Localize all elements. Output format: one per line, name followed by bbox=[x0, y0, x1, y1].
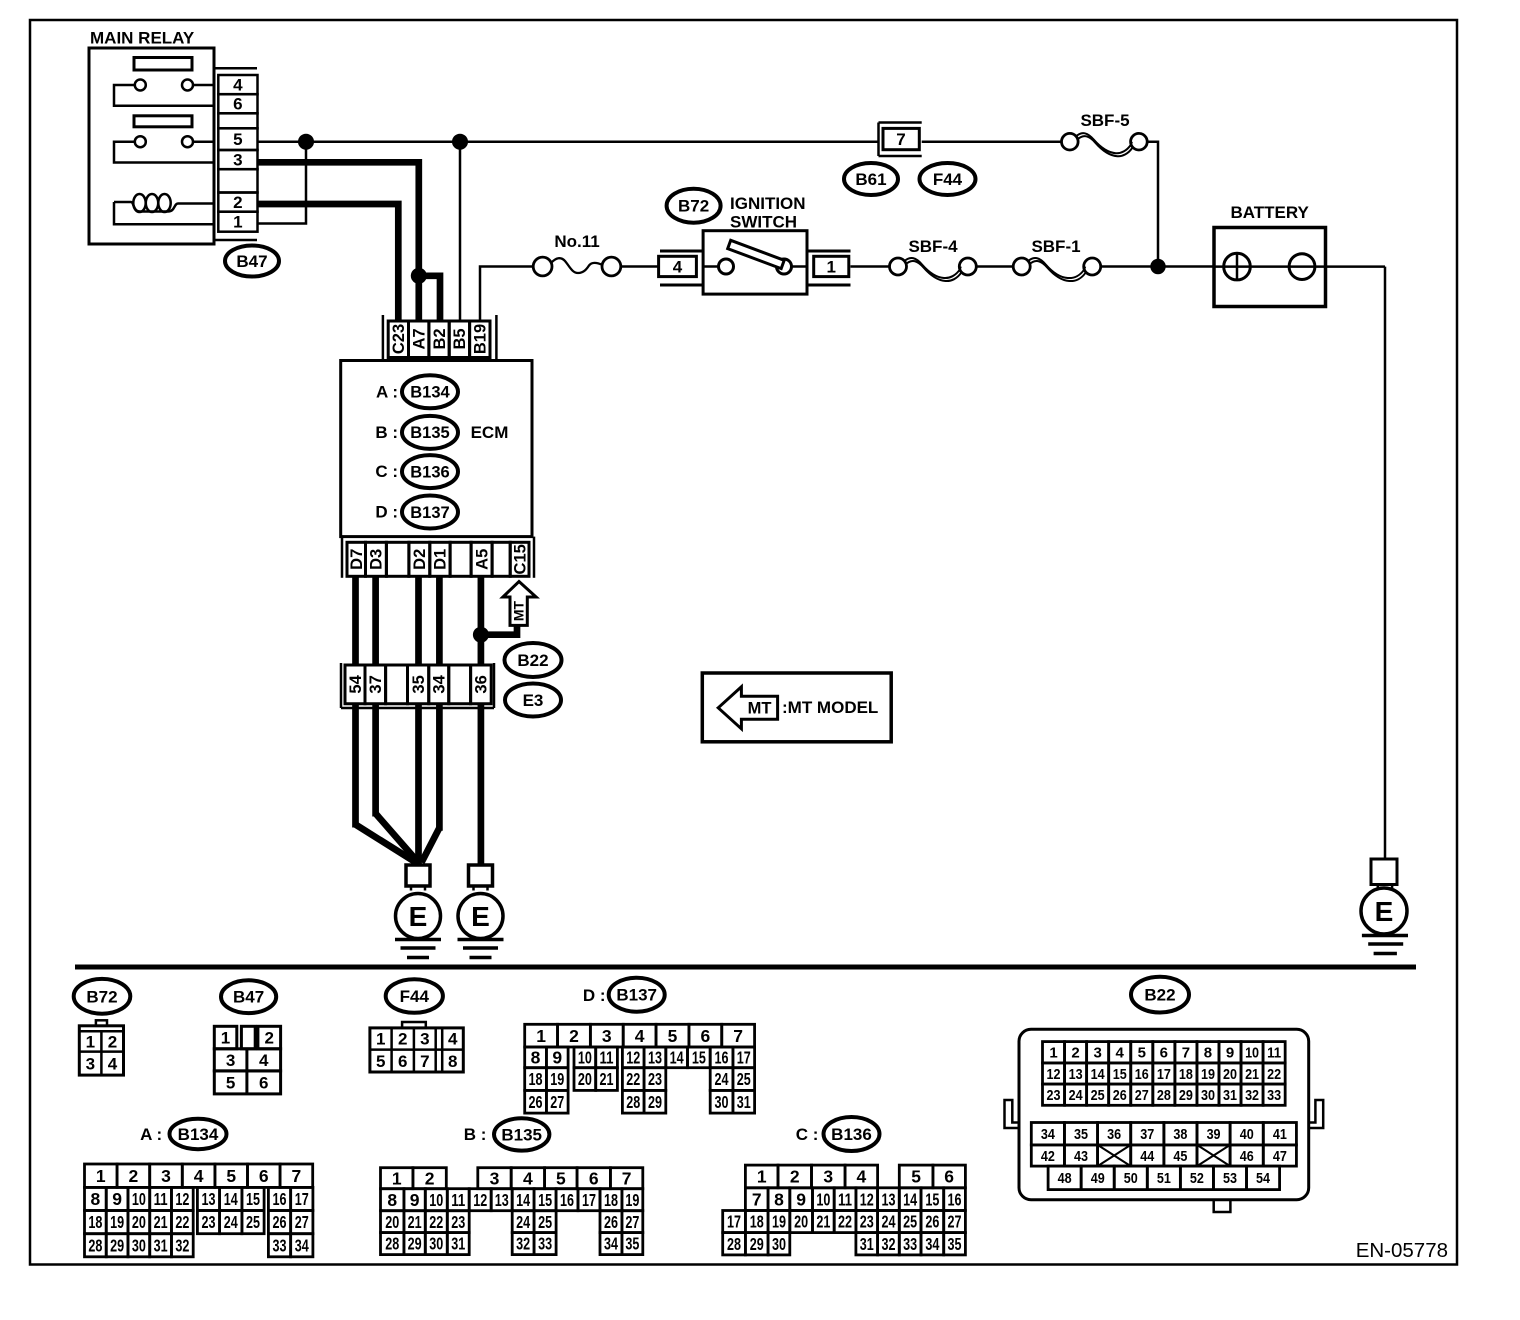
svg-text:3: 3 bbox=[490, 1168, 500, 1188]
svg-text:39: 39 bbox=[1207, 1126, 1221, 1143]
svg-text:27: 27 bbox=[625, 1212, 639, 1232]
svg-text:1: 1 bbox=[757, 1167, 767, 1187]
svg-text:D2: D2 bbox=[411, 549, 429, 570]
svg-text:17: 17 bbox=[737, 1047, 751, 1067]
svg-text:6: 6 bbox=[398, 1052, 407, 1071]
svg-text:34: 34 bbox=[925, 1234, 939, 1254]
svg-text:38: 38 bbox=[1173, 1126, 1187, 1143]
svg-text:49: 49 bbox=[1091, 1170, 1105, 1187]
svg-text:44: 44 bbox=[1140, 1148, 1155, 1165]
svg-text:4: 4 bbox=[194, 1166, 204, 1186]
svg-text:A7: A7 bbox=[410, 328, 428, 349]
svg-text:14: 14 bbox=[516, 1190, 530, 1210]
svg-text:6: 6 bbox=[259, 1166, 269, 1186]
svg-text:34: 34 bbox=[1041, 1126, 1056, 1143]
svg-text:15: 15 bbox=[246, 1189, 260, 1209]
svg-text:9: 9 bbox=[112, 1189, 122, 1209]
svg-text:8: 8 bbox=[448, 1052, 457, 1071]
svg-text:8: 8 bbox=[387, 1190, 397, 1210]
svg-text:5: 5 bbox=[376, 1052, 385, 1071]
svg-text:13: 13 bbox=[648, 1047, 662, 1067]
svg-text:23: 23 bbox=[860, 1212, 874, 1232]
svg-text:20: 20 bbox=[794, 1212, 808, 1232]
svg-text:30: 30 bbox=[429, 1234, 443, 1254]
svg-text:F44: F44 bbox=[933, 170, 963, 189]
svg-text:7: 7 bbox=[733, 1026, 743, 1046]
svg-text:34: 34 bbox=[604, 1234, 618, 1254]
svg-text:B72: B72 bbox=[678, 197, 709, 216]
svg-text:17: 17 bbox=[1157, 1066, 1171, 1083]
svg-text:18: 18 bbox=[529, 1069, 543, 1089]
svg-text:B5: B5 bbox=[451, 328, 469, 349]
svg-text:B136: B136 bbox=[831, 1125, 872, 1144]
svg-text:B :: B : bbox=[375, 423, 398, 442]
svg-text:15: 15 bbox=[1113, 1066, 1127, 1083]
svg-text:32: 32 bbox=[175, 1235, 189, 1255]
svg-text:4: 4 bbox=[523, 1168, 533, 1188]
svg-text:8: 8 bbox=[774, 1189, 784, 1209]
svg-text:C :: C : bbox=[796, 1125, 819, 1144]
svg-text:14: 14 bbox=[903, 1189, 917, 1209]
svg-text:29: 29 bbox=[408, 1234, 422, 1254]
svg-text:12: 12 bbox=[473, 1190, 487, 1210]
svg-text:E3: E3 bbox=[523, 691, 544, 710]
svg-text:6: 6 bbox=[233, 95, 242, 114]
svg-text:30: 30 bbox=[772, 1234, 786, 1254]
svg-text:17: 17 bbox=[727, 1212, 741, 1232]
svg-text:D :: D : bbox=[375, 503, 398, 522]
svg-text:16: 16 bbox=[1135, 1066, 1149, 1083]
svg-text:B135: B135 bbox=[410, 424, 449, 442]
svg-text:29: 29 bbox=[110, 1235, 124, 1255]
svg-text:13: 13 bbox=[202, 1189, 216, 1209]
svg-text:1: 1 bbox=[1049, 1045, 1057, 1062]
svg-text:43: 43 bbox=[1074, 1148, 1088, 1165]
svg-text:31: 31 bbox=[737, 1092, 751, 1112]
svg-text:9: 9 bbox=[796, 1189, 806, 1209]
svg-text:5: 5 bbox=[556, 1168, 566, 1188]
svg-text:16: 16 bbox=[273, 1189, 287, 1209]
svg-text:5: 5 bbox=[911, 1167, 921, 1187]
svg-text:2: 2 bbox=[398, 1030, 407, 1049]
svg-text:18: 18 bbox=[88, 1212, 102, 1232]
svg-text:52: 52 bbox=[1190, 1170, 1204, 1187]
svg-text:51: 51 bbox=[1157, 1170, 1171, 1187]
svg-text:10: 10 bbox=[1245, 1045, 1259, 1062]
svg-text:20: 20 bbox=[1223, 1066, 1237, 1083]
svg-text:2: 2 bbox=[129, 1166, 139, 1186]
svg-text:23: 23 bbox=[1047, 1087, 1061, 1104]
svg-text:5: 5 bbox=[1138, 1045, 1146, 1062]
svg-text:33: 33 bbox=[273, 1235, 287, 1255]
svg-text:MAIN RELAY: MAIN RELAY bbox=[90, 29, 195, 48]
svg-text:35: 35 bbox=[948, 1234, 962, 1254]
svg-text:6: 6 bbox=[589, 1168, 599, 1188]
svg-text:27: 27 bbox=[550, 1092, 564, 1112]
svg-text:9: 9 bbox=[1226, 1045, 1234, 1062]
svg-text:SWITCH: SWITCH bbox=[730, 213, 797, 232]
svg-text:20: 20 bbox=[385, 1212, 399, 1232]
svg-text:37: 37 bbox=[1140, 1126, 1154, 1143]
svg-text:18: 18 bbox=[750, 1212, 764, 1232]
svg-text:22: 22 bbox=[429, 1212, 443, 1232]
svg-text:IGNITION: IGNITION bbox=[730, 194, 806, 213]
svg-text:2: 2 bbox=[790, 1167, 800, 1187]
svg-text:3: 3 bbox=[86, 1054, 95, 1073]
svg-text:10: 10 bbox=[578, 1047, 592, 1067]
svg-text:35: 35 bbox=[625, 1234, 639, 1254]
svg-text:28: 28 bbox=[88, 1235, 102, 1255]
svg-text::MT MODEL: :MT MODEL bbox=[782, 698, 878, 717]
svg-text:15: 15 bbox=[692, 1047, 706, 1067]
svg-text:23: 23 bbox=[202, 1212, 216, 1232]
svg-text:30: 30 bbox=[1201, 1087, 1215, 1104]
svg-text:13: 13 bbox=[495, 1190, 509, 1210]
svg-text:17: 17 bbox=[582, 1190, 596, 1210]
svg-text:31: 31 bbox=[1223, 1087, 1237, 1104]
svg-text:40: 40 bbox=[1240, 1126, 1254, 1143]
svg-text:20: 20 bbox=[132, 1212, 146, 1232]
svg-text:14: 14 bbox=[224, 1189, 238, 1209]
svg-text:B137: B137 bbox=[410, 504, 449, 522]
svg-text:24: 24 bbox=[881, 1212, 895, 1232]
svg-text:E: E bbox=[409, 901, 428, 932]
svg-text:7: 7 bbox=[896, 130, 905, 149]
svg-text:23: 23 bbox=[451, 1212, 465, 1232]
svg-text:10: 10 bbox=[429, 1190, 443, 1210]
svg-text:B22: B22 bbox=[517, 651, 548, 670]
svg-text:6: 6 bbox=[259, 1073, 268, 1092]
svg-text:8: 8 bbox=[91, 1189, 101, 1209]
svg-text:1: 1 bbox=[376, 1030, 385, 1049]
svg-text:14: 14 bbox=[670, 1047, 684, 1067]
svg-text:26: 26 bbox=[529, 1092, 543, 1112]
svg-text:3: 3 bbox=[1093, 1045, 1101, 1062]
svg-text:48: 48 bbox=[1058, 1170, 1072, 1187]
svg-text:25: 25 bbox=[1091, 1087, 1105, 1104]
svg-text:29: 29 bbox=[1179, 1087, 1193, 1104]
svg-text:32: 32 bbox=[1245, 1087, 1259, 1104]
svg-text:B19: B19 bbox=[472, 324, 490, 354]
svg-text:C15: C15 bbox=[511, 544, 529, 574]
svg-text:A :: A : bbox=[376, 382, 398, 401]
svg-text:3: 3 bbox=[823, 1167, 833, 1187]
svg-text:12: 12 bbox=[175, 1189, 189, 1209]
svg-text:24: 24 bbox=[1069, 1087, 1084, 1104]
svg-text:19: 19 bbox=[1201, 1066, 1215, 1083]
svg-text:25: 25 bbox=[538, 1212, 552, 1232]
svg-text:B47: B47 bbox=[236, 252, 267, 271]
svg-text:46: 46 bbox=[1240, 1148, 1254, 1165]
svg-text:50: 50 bbox=[1124, 1170, 1138, 1187]
svg-text:11: 11 bbox=[838, 1189, 852, 1209]
svg-text:18: 18 bbox=[604, 1190, 618, 1210]
svg-text:C :: C : bbox=[375, 462, 398, 481]
svg-text:4: 4 bbox=[233, 76, 243, 95]
svg-text:24: 24 bbox=[224, 1212, 238, 1232]
svg-text:4: 4 bbox=[108, 1054, 118, 1073]
svg-text:3: 3 bbox=[420, 1030, 429, 1049]
svg-text:12: 12 bbox=[1047, 1066, 1061, 1083]
svg-text:4: 4 bbox=[259, 1051, 269, 1070]
svg-text:B72: B72 bbox=[86, 987, 117, 1006]
svg-text:21: 21 bbox=[408, 1212, 422, 1232]
svg-text:14: 14 bbox=[1091, 1066, 1106, 1083]
svg-text:EN-05778: EN-05778 bbox=[1356, 1239, 1448, 1262]
svg-text:42: 42 bbox=[1041, 1148, 1055, 1165]
svg-text:E: E bbox=[471, 901, 490, 932]
svg-text:53: 53 bbox=[1223, 1170, 1237, 1187]
svg-text:7: 7 bbox=[752, 1189, 762, 1209]
svg-text:4: 4 bbox=[1116, 1045, 1125, 1062]
svg-text:E: E bbox=[1375, 896, 1394, 927]
svg-text:28: 28 bbox=[385, 1234, 399, 1254]
svg-text:22: 22 bbox=[838, 1212, 852, 1232]
svg-text:20: 20 bbox=[578, 1069, 592, 1089]
svg-text:1: 1 bbox=[536, 1026, 546, 1046]
svg-text:BATTERY: BATTERY bbox=[1231, 203, 1310, 222]
svg-text:D3: D3 bbox=[368, 549, 386, 570]
svg-text:36: 36 bbox=[473, 675, 491, 693]
svg-text:SBF-4: SBF-4 bbox=[908, 237, 958, 256]
svg-text:37: 37 bbox=[367, 675, 385, 693]
svg-text:B61: B61 bbox=[855, 170, 886, 189]
svg-text:SBF-1: SBF-1 bbox=[1031, 237, 1080, 256]
svg-text:22: 22 bbox=[1267, 1066, 1281, 1083]
svg-text:11: 11 bbox=[451, 1190, 465, 1210]
svg-text:6: 6 bbox=[1160, 1045, 1168, 1062]
svg-text:33: 33 bbox=[1267, 1087, 1281, 1104]
svg-text:B134: B134 bbox=[410, 384, 450, 402]
svg-text:41: 41 bbox=[1273, 1126, 1287, 1143]
svg-text:24: 24 bbox=[715, 1069, 729, 1089]
svg-text:19: 19 bbox=[625, 1190, 639, 1210]
svg-text:35: 35 bbox=[410, 675, 428, 693]
svg-text:7: 7 bbox=[1182, 1045, 1190, 1062]
svg-text:3: 3 bbox=[233, 151, 242, 170]
svg-text:26: 26 bbox=[604, 1212, 618, 1232]
svg-text:34: 34 bbox=[295, 1235, 309, 1255]
svg-text:5: 5 bbox=[226, 1166, 236, 1186]
svg-text:54: 54 bbox=[347, 674, 365, 693]
svg-text:5: 5 bbox=[668, 1026, 678, 1046]
svg-text:23: 23 bbox=[648, 1069, 662, 1089]
svg-text:31: 31 bbox=[451, 1234, 465, 1254]
svg-text:D7: D7 bbox=[348, 549, 366, 570]
svg-text:B47: B47 bbox=[233, 988, 264, 1007]
svg-text:12: 12 bbox=[860, 1189, 874, 1209]
svg-text:F44: F44 bbox=[400, 987, 430, 1006]
svg-text:21: 21 bbox=[816, 1212, 830, 1232]
svg-text:D :: D : bbox=[583, 986, 606, 1005]
svg-text:1: 1 bbox=[221, 1028, 230, 1047]
svg-text:2: 2 bbox=[425, 1168, 435, 1188]
svg-text:26: 26 bbox=[273, 1212, 287, 1232]
svg-text:30: 30 bbox=[132, 1235, 146, 1255]
svg-text:7: 7 bbox=[292, 1166, 302, 1186]
svg-text:54: 54 bbox=[1256, 1170, 1271, 1187]
svg-text:10: 10 bbox=[132, 1189, 146, 1209]
svg-text:1: 1 bbox=[86, 1032, 95, 1051]
svg-text:27: 27 bbox=[295, 1212, 309, 1232]
svg-text:4: 4 bbox=[856, 1167, 866, 1187]
svg-text:4: 4 bbox=[673, 257, 683, 276]
svg-text:27: 27 bbox=[948, 1212, 962, 1232]
svg-text:A5: A5 bbox=[473, 549, 491, 570]
svg-text:1: 1 bbox=[826, 257, 835, 276]
svg-text:24: 24 bbox=[516, 1212, 530, 1232]
svg-text:9: 9 bbox=[552, 1047, 562, 1067]
svg-text:15: 15 bbox=[925, 1189, 939, 1209]
svg-text:11: 11 bbox=[600, 1047, 614, 1067]
svg-text:13: 13 bbox=[1069, 1066, 1083, 1083]
svg-text:ECM: ECM bbox=[471, 423, 509, 442]
svg-text:B134: B134 bbox=[178, 1125, 219, 1144]
svg-text:D1: D1 bbox=[432, 549, 450, 570]
svg-text:21: 21 bbox=[1245, 1066, 1259, 1083]
svg-text:1: 1 bbox=[96, 1166, 106, 1186]
svg-text:36: 36 bbox=[1107, 1126, 1121, 1143]
svg-text:5: 5 bbox=[233, 130, 242, 149]
svg-text:30: 30 bbox=[715, 1092, 729, 1112]
svg-text:19: 19 bbox=[772, 1212, 786, 1232]
svg-text:26: 26 bbox=[925, 1212, 939, 1232]
svg-text:26: 26 bbox=[1113, 1087, 1127, 1104]
svg-text:B137: B137 bbox=[616, 986, 657, 1005]
svg-text:1: 1 bbox=[392, 1168, 402, 1188]
svg-text:25: 25 bbox=[246, 1212, 260, 1232]
svg-text:22: 22 bbox=[175, 1212, 189, 1232]
svg-text:22: 22 bbox=[626, 1069, 640, 1089]
svg-text:2: 2 bbox=[264, 1028, 273, 1047]
svg-text:2: 2 bbox=[108, 1032, 117, 1051]
svg-text:11: 11 bbox=[154, 1189, 168, 1209]
svg-text:2: 2 bbox=[233, 193, 242, 212]
svg-text:32: 32 bbox=[881, 1234, 895, 1254]
svg-text:29: 29 bbox=[648, 1092, 662, 1112]
svg-text:6: 6 bbox=[944, 1167, 954, 1187]
svg-text:B :: B : bbox=[464, 1125, 487, 1144]
svg-text:19: 19 bbox=[550, 1069, 564, 1089]
svg-text:33: 33 bbox=[538, 1234, 552, 1254]
svg-text:6: 6 bbox=[700, 1026, 710, 1046]
svg-text:18: 18 bbox=[1179, 1066, 1193, 1083]
svg-text:B2: B2 bbox=[431, 328, 449, 349]
svg-text:47: 47 bbox=[1273, 1148, 1287, 1165]
svg-text:12: 12 bbox=[626, 1047, 640, 1067]
svg-text:33: 33 bbox=[903, 1234, 917, 1254]
svg-text:A :: A : bbox=[140, 1125, 162, 1144]
svg-text:3: 3 bbox=[602, 1026, 612, 1046]
svg-text:31: 31 bbox=[154, 1235, 168, 1255]
svg-text:11: 11 bbox=[1267, 1045, 1281, 1062]
svg-text:2: 2 bbox=[569, 1026, 579, 1046]
svg-text:B22: B22 bbox=[1144, 986, 1175, 1005]
svg-text:29: 29 bbox=[750, 1234, 764, 1254]
svg-text:21: 21 bbox=[154, 1212, 168, 1232]
svg-text:C23: C23 bbox=[390, 324, 408, 354]
svg-text:3: 3 bbox=[161, 1166, 171, 1186]
svg-text:B136: B136 bbox=[410, 463, 449, 481]
svg-text:8: 8 bbox=[531, 1047, 541, 1067]
svg-text:16: 16 bbox=[560, 1190, 574, 1210]
svg-text:3: 3 bbox=[226, 1051, 235, 1070]
svg-text:9: 9 bbox=[410, 1190, 420, 1210]
svg-text:B135: B135 bbox=[501, 1125, 542, 1144]
svg-text:28: 28 bbox=[1157, 1087, 1171, 1104]
svg-text:No.11: No.11 bbox=[554, 232, 599, 251]
svg-text:MT: MT bbox=[748, 700, 772, 718]
svg-text:34: 34 bbox=[431, 674, 449, 693]
svg-text:17: 17 bbox=[295, 1189, 309, 1209]
svg-text:31: 31 bbox=[860, 1234, 874, 1254]
svg-text:SBF-5: SBF-5 bbox=[1080, 111, 1129, 130]
svg-text:2: 2 bbox=[1071, 1045, 1079, 1062]
svg-text:28: 28 bbox=[626, 1092, 640, 1112]
svg-text:45: 45 bbox=[1173, 1148, 1187, 1165]
svg-text:MT: MT bbox=[511, 600, 527, 621]
svg-text:27: 27 bbox=[1135, 1087, 1149, 1104]
svg-text:15: 15 bbox=[538, 1190, 552, 1210]
svg-text:16: 16 bbox=[948, 1189, 962, 1209]
svg-text:21: 21 bbox=[600, 1069, 614, 1089]
svg-text:25: 25 bbox=[903, 1212, 917, 1232]
svg-text:8: 8 bbox=[1204, 1045, 1212, 1062]
svg-text:10: 10 bbox=[816, 1189, 830, 1209]
svg-text:7: 7 bbox=[622, 1168, 632, 1188]
svg-text:4: 4 bbox=[448, 1030, 458, 1049]
svg-text:7: 7 bbox=[420, 1052, 429, 1071]
svg-text:4: 4 bbox=[635, 1026, 645, 1046]
svg-text:16: 16 bbox=[715, 1047, 729, 1067]
svg-text:5: 5 bbox=[226, 1073, 235, 1092]
svg-text:25: 25 bbox=[737, 1069, 751, 1089]
svg-text:28: 28 bbox=[727, 1234, 741, 1254]
svg-text:19: 19 bbox=[110, 1212, 124, 1232]
svg-text:32: 32 bbox=[516, 1234, 530, 1254]
svg-text:35: 35 bbox=[1074, 1126, 1088, 1143]
svg-text:13: 13 bbox=[881, 1189, 895, 1209]
svg-text:1: 1 bbox=[233, 213, 242, 232]
